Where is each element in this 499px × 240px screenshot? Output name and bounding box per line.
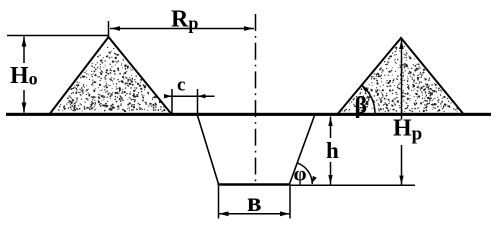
dimension H0 line upper — [23, 37, 25, 64]
dimension H0 arrow up — [22, 37, 27, 47]
spoil heap left stipple fill — [58, 47, 165, 113]
dimension c right tick — [197, 89, 199, 116]
angle phi arc — [297, 163, 312, 184]
dimension h arrow up — [328, 117, 332, 126]
trench left slope wall — [198, 116, 219, 185]
dimension Rp arrow left — [111, 26, 121, 31]
angle beta arc — [362, 85, 375, 114]
dimension c line — [165, 95, 215, 97]
svg-text:в: в — [247, 187, 262, 217]
trench bottom extension line right — [291, 184, 416, 186]
trench right slope wall — [290, 116, 315, 185]
svg-text:h: h — [326, 138, 339, 163]
dimension Rp arrow right — [244, 26, 254, 31]
svg-text:β: β — [355, 93, 368, 119]
angle beta arc arrowhead — [362, 86, 369, 92]
svg-text:c: c — [177, 75, 185, 96]
dimension Hp arrow down — [399, 176, 403, 185]
spoil heap right stipple fill — [342, 44, 458, 112]
dimension c arrow right — [198, 94, 206, 98]
dimension B line — [219, 213, 291, 215]
dimension c arrow left — [164, 94, 172, 98]
H0 extension line from apex — [7, 35, 108, 37]
dimension B arrow right — [280, 211, 290, 216]
angle phi arc arrowhead — [312, 176, 317, 183]
centerline (dash-dot axis) — [255, 14, 257, 184]
dimension H0 arrow down — [22, 103, 27, 113]
dimension Hp arrow up — [399, 40, 403, 49]
dimension H0 line lower — [23, 90, 25, 113]
dimension B extension line left — [218, 186, 220, 219]
ground line — [6, 113, 491, 116]
spoil heap right (triangle outline) — [338, 38, 463, 114]
dimension Hp line upper (inside right heap) — [401, 40, 403, 120]
dimension h line upper — [330, 117, 332, 139]
spoil heap left (triangle outline) — [50, 37, 171, 114]
dimension Rp line — [110, 28, 254, 30]
trench bottom — [218, 183, 291, 186]
Rp apex extension line — [108, 21, 110, 37]
dimension h arrow down — [328, 175, 332, 184]
dimension B extension line right — [289, 186, 291, 219]
svg-text:φ: φ — [294, 162, 307, 186]
dimension Hp line lower — [401, 145, 403, 185]
dimension c left tick — [171, 89, 173, 113]
dimension B arrow left — [219, 211, 229, 216]
dimension h line lower — [330, 162, 332, 185]
